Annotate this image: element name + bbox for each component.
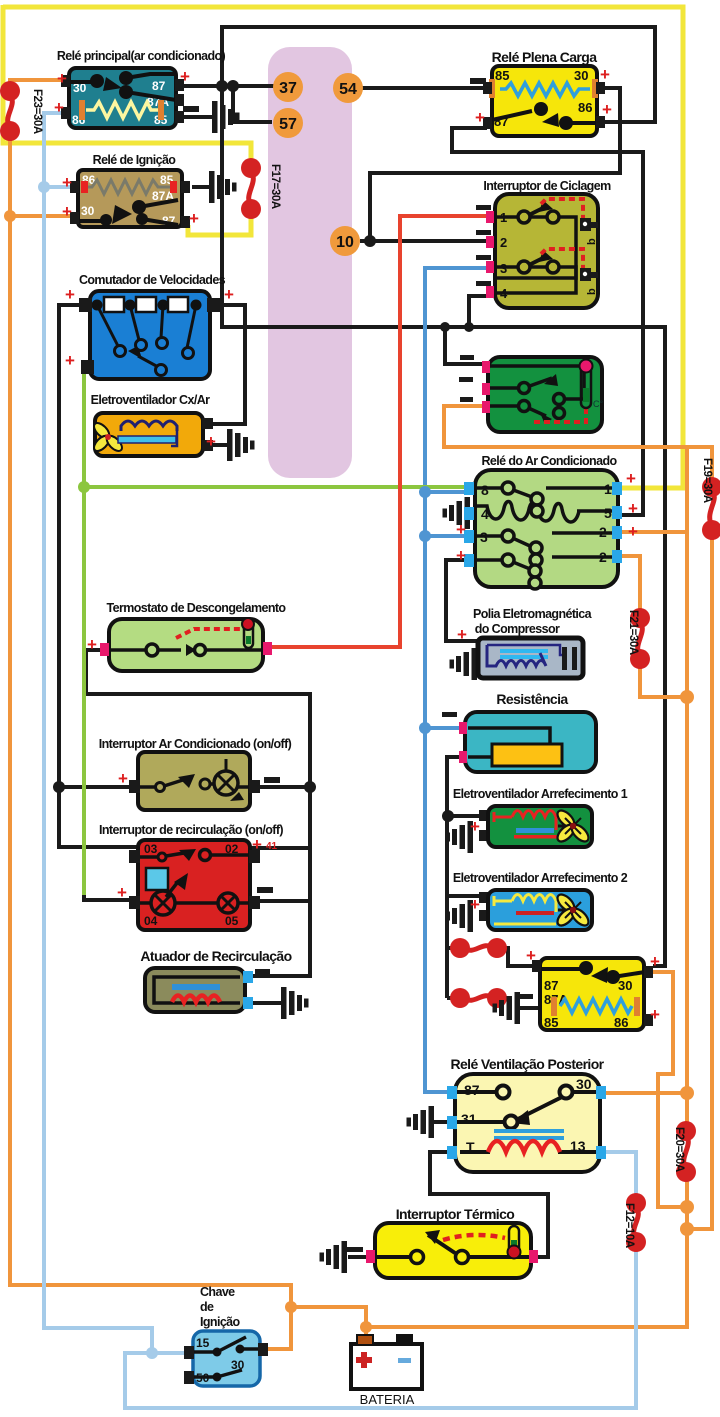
svg-text:Chave: Chave <box>200 1285 235 1299</box>
svg-text:+: + <box>62 202 72 221</box>
svg-text:30: 30 <box>81 204 95 218</box>
svg-text:Eletroventilador Cx/Ar: Eletroventilador Cx/Ar <box>91 393 211 407</box>
svg-text:37: 37 <box>279 80 297 97</box>
svg-text:F21=30A: F21=30A <box>627 610 639 655</box>
svg-text:15: 15 <box>196 1336 210 1350</box>
svg-text:C°: C° <box>593 399 603 409</box>
svg-text:b: b <box>586 288 598 295</box>
svg-text:F12=10A: F12=10A <box>623 1203 635 1248</box>
svg-text:+: + <box>65 351 75 370</box>
svg-text:+: + <box>54 98 64 117</box>
svg-text:+: + <box>180 67 190 86</box>
svg-text:+: + <box>650 1005 660 1024</box>
svg-text:05: 05 <box>225 914 239 928</box>
svg-text:+: + <box>470 895 480 914</box>
svg-text:Termostato de Descongelamento: Termostato de Descongelamento <box>107 601 287 615</box>
svg-text:+: + <box>206 432 216 451</box>
svg-text:+: + <box>470 817 480 836</box>
svg-text:Relé de Ignição: Relé de Ignição <box>93 153 177 167</box>
svg-text:30: 30 <box>576 1076 592 1092</box>
svg-text:BATERIA: BATERIA <box>360 1392 415 1407</box>
svg-text:10: 10 <box>336 234 354 251</box>
svg-text:+: + <box>87 635 97 654</box>
svg-text:+: + <box>628 499 638 518</box>
svg-text:F20=30A: F20=30A <box>673 1127 685 1172</box>
svg-text:41: 41 <box>266 841 278 852</box>
svg-text:Relé do Ar Condicionado: Relé do Ar Condicionado <box>481 454 617 468</box>
svg-text:F17=30A: F17=30A <box>269 164 281 209</box>
svg-text:+: + <box>117 883 127 902</box>
svg-text:+: + <box>65 285 75 304</box>
svg-text:86: 86 <box>578 100 592 115</box>
svg-text:Comutador de Velocidades: Comutador de Velocidades <box>79 273 226 287</box>
svg-text:30: 30 <box>574 68 588 83</box>
svg-text:87: 87 <box>544 978 558 993</box>
svg-text:04: 04 <box>144 914 158 928</box>
svg-text:+: + <box>62 173 72 192</box>
svg-text:+: + <box>600 65 610 84</box>
svg-text:+: + <box>475 108 485 127</box>
svg-text:Interruptor Térmico: Interruptor Térmico <box>396 1206 515 1222</box>
svg-text:F19=30A: F19=30A <box>701 458 713 503</box>
svg-text:+: + <box>457 625 467 644</box>
svg-text:87: 87 <box>152 79 166 93</box>
svg-text:85: 85 <box>495 68 509 83</box>
svg-text:2: 2 <box>500 235 507 250</box>
svg-text:8: 8 <box>481 482 489 498</box>
svg-text:+: + <box>252 835 262 854</box>
svg-text:+: + <box>650 952 660 971</box>
svg-text:+: + <box>456 546 466 565</box>
svg-text:+: + <box>57 69 67 88</box>
svg-text:+: + <box>628 522 638 541</box>
svg-text:+: + <box>456 520 466 539</box>
svg-text:+: + <box>118 769 128 788</box>
svg-text:30: 30 <box>618 978 632 993</box>
svg-text:Relé Ventilação Posterior: Relé Ventilação Posterior <box>450 1056 604 1072</box>
svg-text:Relé principal(ar condicionado: Relé principal(ar condicionado) <box>57 49 226 63</box>
svg-text:Eletroventilador Arrefecimento: Eletroventilador Arrefecimento 2 <box>453 871 628 885</box>
svg-text:+: + <box>526 946 536 965</box>
svg-text:do Compressor: do Compressor <box>475 622 560 636</box>
svg-text:86: 86 <box>614 1015 628 1030</box>
svg-text:+: + <box>224 285 234 304</box>
svg-text:b: b <box>586 238 598 245</box>
svg-text:+: + <box>626 469 636 488</box>
svg-text:5: 5 <box>604 505 612 521</box>
svg-text:31: 31 <box>461 1111 477 1127</box>
svg-text:+: + <box>602 100 612 119</box>
svg-text:Interruptor Ar Condicionado (o: Interruptor Ar Condicionado (on/off) <box>99 737 292 751</box>
svg-text:Polia Eletromagnética: Polia Eletromagnética <box>473 607 593 621</box>
svg-text:Atuador de Recirculação: Atuador de Recirculação <box>140 948 291 964</box>
svg-text:54: 54 <box>339 81 357 98</box>
svg-text:85: 85 <box>544 1015 558 1030</box>
svg-text:Relé Plena Carga: Relé Plena Carga <box>492 49 598 65</box>
svg-text:Eletroventilador Arrefecimento: Eletroventilador Arrefecimento 1 <box>453 787 628 801</box>
svg-text:de: de <box>200 1300 214 1314</box>
svg-text:57: 57 <box>279 116 297 133</box>
svg-text:Resistência: Resistência <box>496 691 568 707</box>
svg-text:Interruptor de Ciclagem: Interruptor de Ciclagem <box>483 179 611 193</box>
svg-text:F23=30A: F23=30A <box>31 89 43 134</box>
svg-text:Ignição: Ignição <box>200 1315 241 1329</box>
svg-text:03: 03 <box>144 842 158 856</box>
svg-text:+: + <box>189 209 199 228</box>
